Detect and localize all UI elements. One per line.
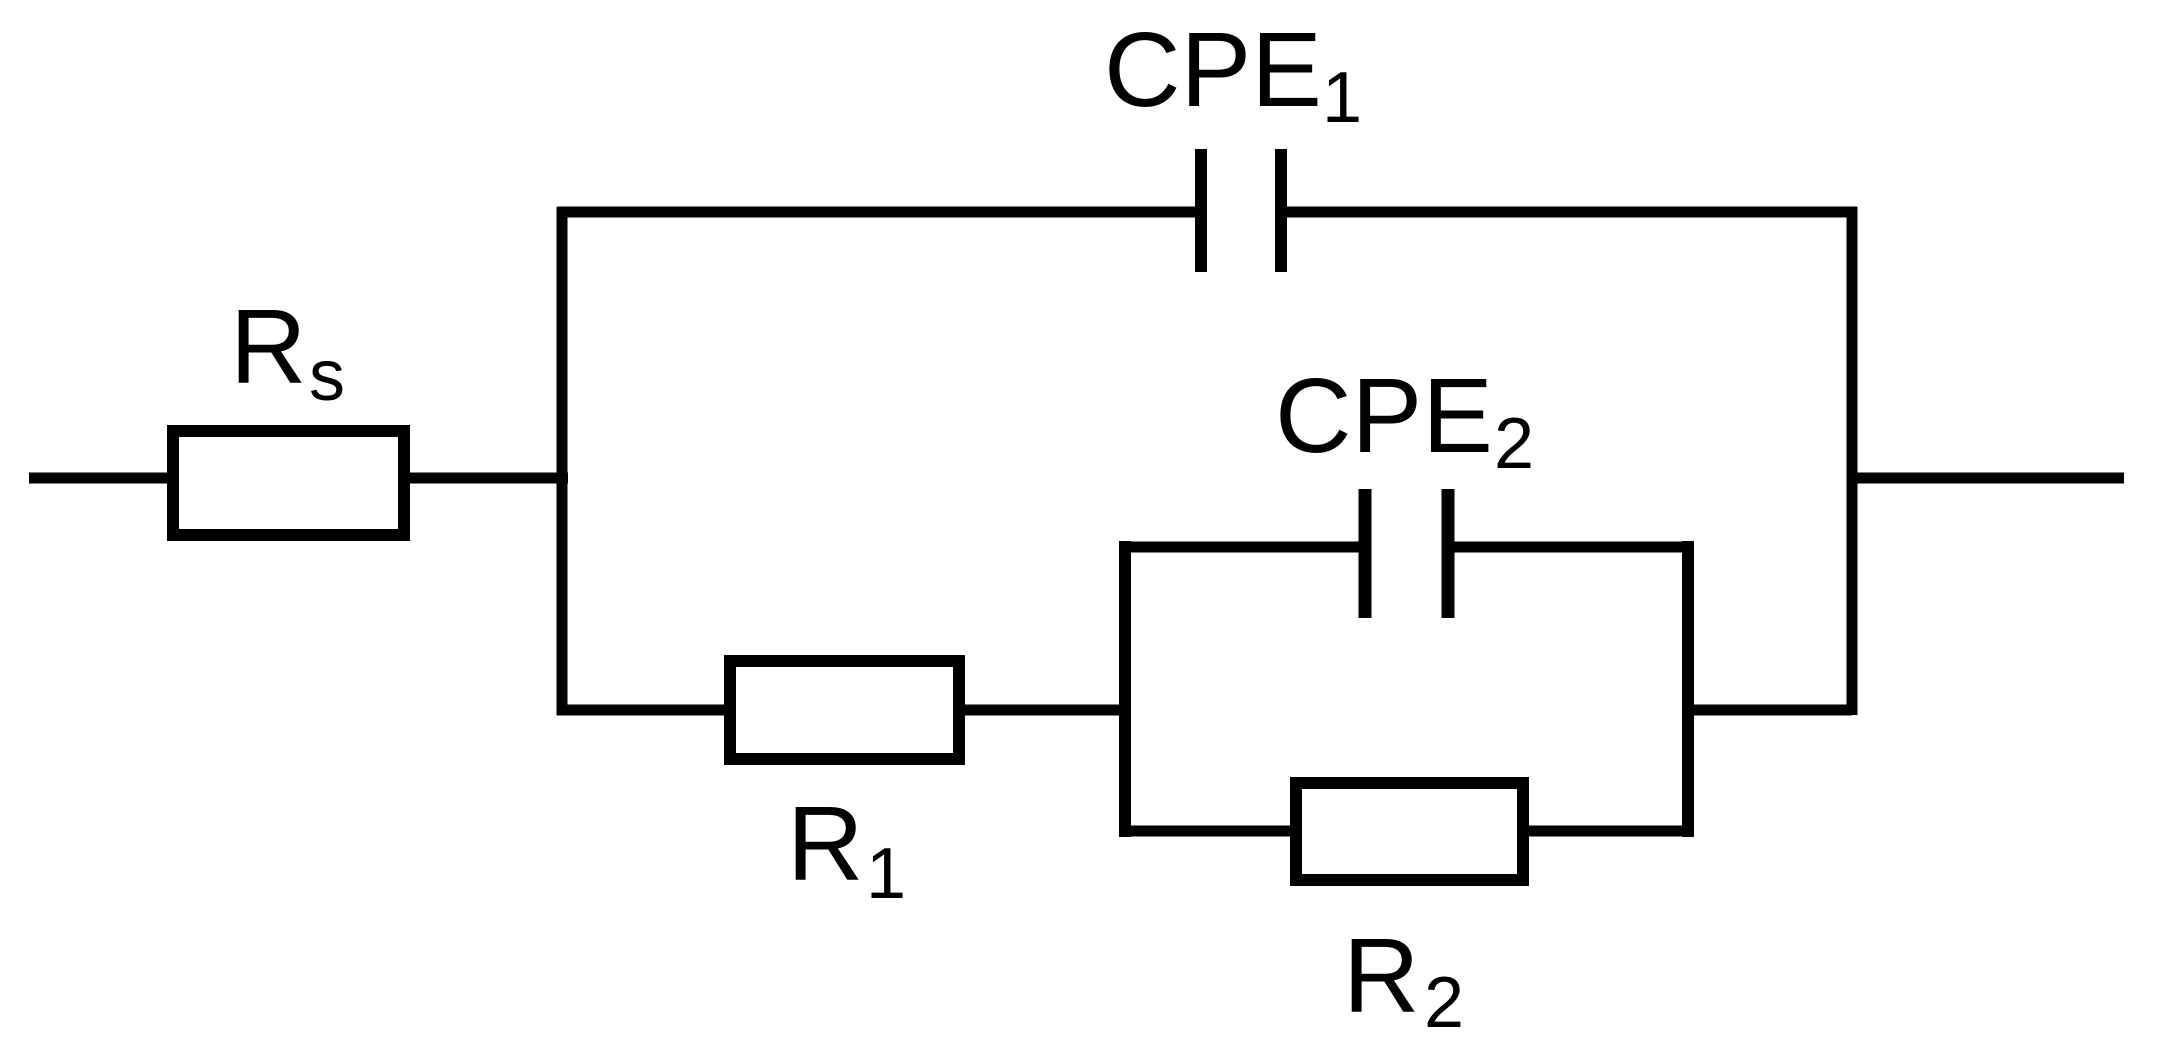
svg-text:CPE: CPE bbox=[1275, 357, 1493, 475]
resistor Rs bbox=[173, 431, 404, 535]
wire: inner block to right rail bbox=[1688, 705, 1852, 716]
wire: right vertical rail bbox=[1847, 207, 1858, 715]
resistor R2 bbox=[1296, 783, 1523, 880]
svg-text:R: R bbox=[230, 288, 307, 406]
wire: input lead left bbox=[29, 473, 173, 484]
resistor R1 bbox=[730, 661, 959, 759]
svg-text:1: 1 bbox=[1322, 58, 1362, 138]
svg-text:CPE: CPE bbox=[1104, 11, 1322, 129]
wire: output lead right bbox=[1852, 473, 2124, 484]
wire: inner top rail right segment bbox=[1454, 542, 1694, 553]
wire: left vertical rail bbox=[557, 207, 568, 715]
capacitor CPE2 left plate bbox=[1359, 489, 1372, 618]
svg-text:2: 2 bbox=[1424, 963, 1464, 1043]
svg-text:1: 1 bbox=[866, 834, 906, 914]
wire: inner block left vertical bbox=[1119, 541, 1131, 837]
wire: inner block right vertical bbox=[1682, 541, 1694, 837]
capacitor CPE2 right plate bbox=[1442, 489, 1455, 618]
wire: inner bottom rail right segment bbox=[1517, 826, 1694, 837]
wire: inner top rail left segment bbox=[1119, 542, 1359, 553]
wire: inner bottom rail left segment bbox=[1119, 826, 1302, 837]
wire: bottom branch left segment bbox=[557, 705, 730, 716]
wire: R1 to inner block bbox=[959, 705, 1131, 716]
wire: top rail left segment bbox=[557, 207, 1195, 218]
svg-text:2: 2 bbox=[1494, 404, 1534, 484]
capacitor CPE1 left plate bbox=[1195, 149, 1207, 272]
wire: Rs to left junction bbox=[404, 473, 568, 484]
wire: top rail right segment bbox=[1287, 207, 1857, 218]
svg-text:s: s bbox=[309, 336, 345, 416]
capacitor CPE1 right plate bbox=[1275, 149, 1287, 272]
svg-text:R: R bbox=[1343, 917, 1420, 1035]
svg-text:R: R bbox=[787, 785, 864, 903]
